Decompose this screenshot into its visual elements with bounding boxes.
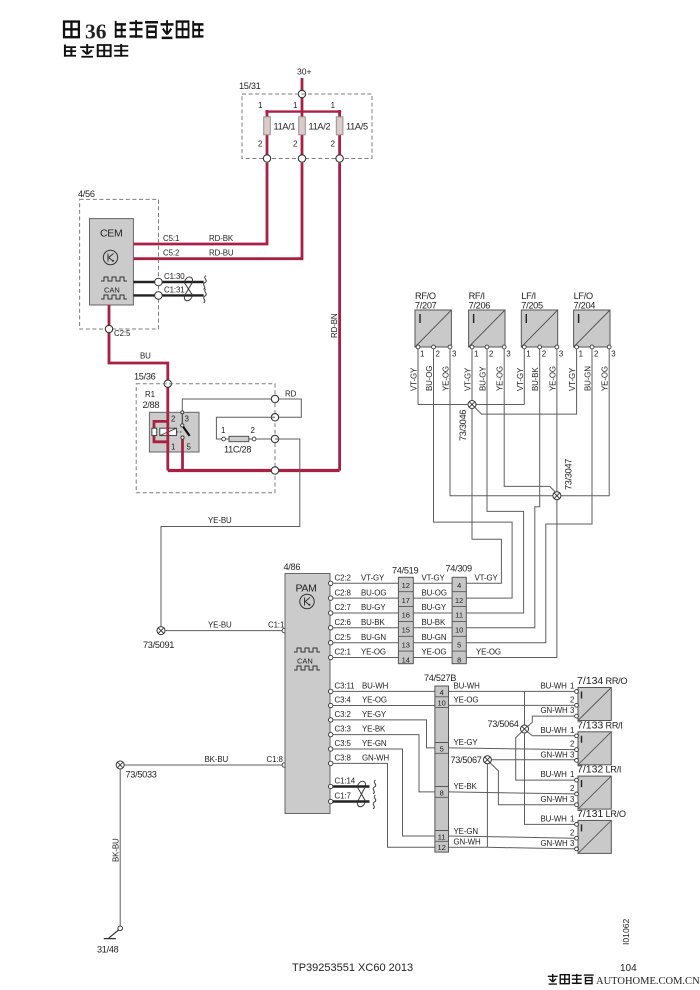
- svg-text:4/86: 4/86: [284, 562, 301, 572]
- wire BU-BK 74/309 up to sensor 7/205 pin2: [466, 347, 539, 628]
- splice 73/3046: [458, 401, 476, 442]
- svg-text:4: 4: [457, 581, 461, 590]
- wire CAN low C1:31: [133, 286, 203, 300]
- svg-text:RF/O: RF/O: [415, 291, 436, 301]
- wire BU-WH splice down to 7/132 pin1: [516, 732, 575, 780]
- svg-text:YE-OG: YE-OG: [548, 366, 557, 391]
- wire RD-BU fuse2 to CEM C5:2: [133, 163, 302, 259]
- svg-text:RR/O: RR/O: [606, 676, 628, 686]
- svg-text:AUTOHOME.COM.CN: AUTOHOME.COM.CN: [596, 976, 700, 987]
- svg-text:74/527B: 74/527B: [424, 673, 456, 683]
- wire YE-OG cell10 to 7/134 pin2: [449, 696, 575, 706]
- splice 73/5064: [488, 719, 529, 733]
- svg-text:2: 2: [171, 415, 175, 424]
- wire BU-OG 74/309 up to sensor 7/207 pin2: [434, 347, 513, 598]
- svg-text:VT-GY: VT-GY: [410, 367, 419, 391]
- svg-text:GN-WH: GN-WH: [454, 837, 482, 846]
- svg-text:11: 11: [455, 611, 463, 620]
- title line 1: 组 36 附加电子设备: [64, 20, 203, 44]
- svg-text:17: 17: [402, 596, 410, 605]
- svg-text:7/207: 7/207: [415, 301, 437, 311]
- svg-text:1: 1: [526, 350, 530, 359]
- svg-text:3: 3: [611, 350, 616, 359]
- CAN symbol CEM: [101, 277, 127, 281]
- relay R1 2/88: [143, 390, 200, 471]
- svg-text:C3:5: C3:5: [335, 739, 352, 748]
- svg-text:YE-OG: YE-OG: [362, 696, 387, 705]
- wire BU from CEM C2:5 to relay: [105, 305, 171, 412]
- svg-text:73/5091: 73/5091: [143, 640, 174, 650]
- svg-text:73/3046: 73/3046: [458, 410, 468, 441]
- svg-text:C1:30: C1:30: [164, 272, 185, 281]
- svg-text:5: 5: [440, 744, 444, 753]
- svg-text:2: 2: [542, 350, 546, 359]
- svg-text:4/56: 4/56: [78, 189, 95, 199]
- svg-text:YE-OG: YE-OG: [496, 366, 505, 391]
- svg-text:CEM: CEM: [100, 228, 122, 240]
- connector 74/519: [392, 566, 418, 665]
- svg-text:YE-BU: YE-BU: [208, 621, 232, 630]
- svg-text:3: 3: [185, 415, 190, 424]
- svg-text:YE-OG: YE-OG: [361, 648, 386, 657]
- svg-text:1: 1: [293, 101, 297, 110]
- svg-text:BU-WH: BU-WH: [541, 682, 568, 691]
- sensor LF/I 7/205: [516, 291, 564, 391]
- svg-text:YE-GY: YE-GY: [454, 738, 479, 747]
- svg-text:2: 2: [251, 426, 255, 435]
- svg-text:GN-WH: GN-WH: [541, 751, 569, 760]
- svg-text:2: 2: [570, 740, 574, 749]
- svg-text:GN-WH: GN-WH: [541, 706, 569, 715]
- wire YE-BK cell8 to 7/132 pin2: [449, 782, 575, 794]
- svg-text:5: 5: [187, 443, 192, 452]
- wire BK-BU down to ground: [112, 769, 121, 926]
- svg-text:BU-GN: BU-GN: [361, 633, 386, 642]
- wire BU-WH tap down to splice 73/5064: [524, 691, 526, 725]
- svg-text:73/5067: 73/5067: [451, 755, 482, 765]
- svg-text:VT-GY: VT-GY: [464, 367, 473, 391]
- svg-text:10: 10: [438, 699, 446, 708]
- wire CAN high C1:30: [133, 272, 203, 286]
- svg-text:YE-OG: YE-OG: [476, 648, 501, 657]
- svg-text:2: 2: [331, 140, 335, 149]
- svg-text:1: 1: [258, 101, 262, 110]
- svg-text:1: 1: [570, 815, 574, 824]
- svg-text:BU: BU: [140, 352, 151, 361]
- svg-text:VT-GY: VT-GY: [475, 574, 499, 583]
- svg-text:CAN: CAN: [297, 657, 313, 666]
- svg-text:74/309: 74/309: [446, 564, 472, 574]
- svg-text:BU-GY: BU-GY: [479, 366, 488, 391]
- svg-text:31/48: 31/48: [97, 945, 119, 955]
- svg-text:BU-GY: BU-GY: [422, 603, 447, 612]
- svg-text:BK-BU: BK-BU: [112, 838, 121, 862]
- svg-text:LF/O: LF/O: [574, 291, 593, 301]
- svg-text:C3:4: C3:4: [335, 696, 352, 705]
- svg-text:I01062: I01062: [621, 918, 631, 945]
- svg-text:VT-GY: VT-GY: [422, 574, 446, 583]
- svg-text:12: 12: [455, 596, 463, 605]
- wire YE-BU from node C down-left to splice 73/5091: [161, 439, 300, 626]
- wire BU-WH cell4 to 7/134 pin1: [449, 682, 575, 692]
- wire GN-WH splice to 7/132 pin3: [490, 763, 575, 805]
- control module PAM 4/86: [284, 562, 331, 814]
- svg-text:C1:1: C1:1: [268, 621, 284, 630]
- svg-text:GN-WH: GN-WH: [541, 795, 569, 804]
- svg-text:C3:3: C3:3: [335, 725, 352, 734]
- wire GN-WH cell12 to 7/131 pin3 with tap up to splice: [449, 764, 576, 849]
- svg-text:8: 8: [457, 655, 461, 664]
- svg-text:C2:8: C2:8: [335, 588, 352, 597]
- svg-text:BU-OG: BU-OG: [425, 366, 434, 391]
- svg-text:VT-GY: VT-GY: [361, 574, 385, 583]
- svg-text:2: 2: [436, 350, 440, 359]
- svg-text:PAM: PAM: [296, 583, 317, 595]
- wire YE-GY cell5 to 7/133 pin2: [449, 738, 575, 750]
- svg-text:LF/I: LF/I: [521, 291, 536, 301]
- svg-text:12: 12: [438, 843, 446, 852]
- svg-text:1: 1: [570, 770, 574, 779]
- svg-text:C5:1: C5:1: [163, 234, 179, 243]
- svg-text:C2:1: C2:1: [335, 648, 351, 657]
- svg-text:BK-BU: BK-BU: [205, 755, 229, 764]
- svg-text:YE-GN: YE-GN: [454, 827, 479, 836]
- svg-text:1: 1: [420, 350, 424, 359]
- wire fuse feed bus: [267, 110, 340, 112]
- wire BU-WH splice to 7/133 pin1: [527, 726, 574, 736]
- svg-text:YE-OG: YE-OG: [422, 648, 447, 657]
- svg-text:7/205: 7/205: [521, 301, 543, 311]
- svg-text:BU-WH: BU-WH: [541, 770, 568, 779]
- svg-text:RR/I: RR/I: [606, 720, 623, 730]
- svg-text:C5:2: C5:2: [163, 249, 179, 258]
- svg-text:2: 2: [594, 350, 598, 359]
- svg-text:104: 104: [620, 963, 637, 974]
- splice 73/5067: [451, 755, 492, 765]
- svg-text:30+: 30+: [297, 67, 312, 77]
- svg-text:C2:2: C2:2: [335, 574, 351, 583]
- wire YE-OG net front sensors: [450, 349, 609, 496]
- svg-text:2: 2: [570, 784, 574, 793]
- wire YE-BU splice to PAM C1:1: [165, 621, 286, 633]
- svg-text:3: 3: [452, 350, 457, 359]
- sensor RF/O 7/207: [410, 291, 458, 391]
- sensor 7/134 RR/O: [575, 675, 628, 721]
- svg-text:3: 3: [570, 795, 575, 804]
- wire RD node to fuse 11C/28: [216, 417, 275, 439]
- svg-text:C3:2: C3:2: [335, 710, 351, 719]
- svg-text:12: 12: [402, 581, 410, 590]
- sensor RF/I 7/206: [464, 291, 512, 391]
- svg-text:BU-WH: BU-WH: [541, 726, 568, 735]
- svg-text:73/3047: 73/3047: [564, 459, 574, 490]
- svg-text:1: 1: [331, 101, 335, 110]
- svg-text:7/206: 7/206: [469, 301, 491, 311]
- svg-text:2: 2: [489, 350, 493, 359]
- svg-text:15/36: 15/36: [134, 372, 156, 382]
- wire VT-GY 74/309 up to splice 73/3046: [466, 409, 501, 584]
- control module CEM 4/56: [78, 189, 159, 329]
- svg-text:YE-OG: YE-OG: [454, 696, 479, 705]
- svg-text:2/88: 2/88: [143, 400, 160, 410]
- svg-text:7/131: 7/131: [577, 808, 603, 820]
- svg-text:TP39253551 XC60 2013: TP39253551 XC60 2013: [292, 962, 413, 974]
- splice 73/5033: [116, 761, 157, 780]
- svg-text:YE-OG: YE-OG: [442, 366, 451, 391]
- svg-text:C1:14: C1:14: [335, 777, 356, 786]
- svg-text:2: 2: [570, 696, 574, 705]
- wire VT-GY bus front sensors: [418, 349, 524, 405]
- sensor LF/O 7/204: [568, 291, 616, 391]
- svg-text:CAN: CAN: [104, 286, 120, 295]
- wire relay bus (thick red): [168, 469, 340, 472]
- svg-text:73/5033: 73/5033: [126, 770, 157, 780]
- svg-text:BU-BK: BU-BK: [422, 618, 446, 627]
- wire VT-GY branch to 7/204 pin1: [475, 349, 577, 414]
- svg-text:11A/5: 11A/5: [346, 122, 368, 132]
- wire BU-WH splice to 7/131 pin1: [525, 733, 575, 824]
- node 30+: [297, 67, 312, 112]
- svg-text:BU-GY: BU-GY: [361, 603, 386, 612]
- svg-text:BU-WH: BU-WH: [454, 682, 481, 691]
- twisted pair symbol CEM: [184, 276, 206, 303]
- svg-text:16: 16: [402, 611, 410, 620]
- svg-text:1: 1: [579, 350, 583, 359]
- svg-text:BU-GN: BU-GN: [422, 633, 447, 642]
- svg-text:15/31: 15/31: [239, 81, 261, 91]
- svg-text:14: 14: [402, 655, 410, 664]
- svg-text:7/133: 7/133: [577, 719, 603, 731]
- svg-text:1: 1: [171, 443, 175, 452]
- svg-text:VT-GY: VT-GY: [516, 367, 525, 391]
- svg-text:BU-WH: BU-WH: [541, 815, 568, 824]
- splice 73/5091: [143, 627, 174, 650]
- wires 74/519 to 74/309: [413, 574, 452, 658]
- svg-text:10: 10: [455, 626, 463, 635]
- svg-text:BU-OG: BU-OG: [361, 588, 386, 597]
- fuse 11A/1: [258, 101, 296, 159]
- svg-text:1: 1: [474, 350, 478, 359]
- svg-text:15: 15: [402, 626, 410, 635]
- svg-text:11C/28: 11C/28: [224, 445, 251, 455]
- svg-text:4: 4: [440, 688, 444, 697]
- svg-text:C3:8: C3:8: [335, 754, 352, 763]
- svg-text:1: 1: [570, 682, 574, 691]
- svg-text:2: 2: [293, 140, 297, 149]
- watermark 汽车之家 AUTOHOME.COM.CN: [548, 974, 700, 987]
- svg-text:VT-GY: VT-GY: [568, 367, 577, 391]
- svg-text:RD-BN: RD-BN: [330, 313, 339, 338]
- svg-text:GN-WH: GN-WH: [362, 754, 390, 763]
- title line 2: 驻车辅助: [65, 44, 128, 57]
- wire relay pin3 to RD node: [182, 399, 275, 411]
- svg-text:GN-WH: GN-WH: [541, 839, 569, 848]
- wire BU-GN 74/309 up to sensor 7/204 pin2: [466, 347, 592, 643]
- fuse 11A/2: [293, 101, 331, 159]
- PAM C3 pin rows to 74/527B: [329, 682, 435, 848]
- svg-text:74/519: 74/519: [392, 566, 418, 576]
- svg-text:C2:5: C2:5: [335, 633, 352, 642]
- svg-text:YE-OG: YE-OG: [601, 366, 610, 391]
- svg-text:RD-BK: RD-BK: [209, 234, 234, 243]
- fuse box 15/31: [239, 81, 372, 159]
- svg-text:2: 2: [570, 828, 574, 837]
- svg-text:LR/I: LR/I: [606, 765, 622, 775]
- svg-text:7/132: 7/132: [577, 764, 603, 776]
- svg-text:RD-BU: RD-BU: [209, 249, 234, 258]
- svg-text:C1:8: C1:8: [267, 755, 284, 764]
- svg-text:36: 36: [85, 20, 107, 44]
- svg-text:1: 1: [570, 726, 574, 735]
- svg-text:C2:7: C2:7: [335, 603, 351, 612]
- svg-text:BU-OG: BU-OG: [422, 588, 447, 597]
- wire YE-GN cell11 to 7/131 pin2: [449, 827, 575, 838]
- svg-text:3: 3: [506, 350, 511, 359]
- wire YE-OG 74/309 up to splice 73/3047: [466, 500, 557, 658]
- svg-text:11: 11: [438, 832, 446, 841]
- svg-text:BU-BK: BU-BK: [531, 367, 540, 391]
- svg-text:1: 1: [221, 426, 225, 435]
- svg-text:3: 3: [570, 706, 575, 715]
- wire 30+ feed: [301, 78, 304, 112]
- svg-text:YE-GN: YE-GN: [362, 739, 387, 748]
- svg-text:13: 13: [402, 640, 410, 649]
- fuse 11A/5: [331, 101, 368, 159]
- wire fuse 11C/28 to node C: [256, 438, 275, 440]
- svg-text:11A/1: 11A/1: [274, 122, 296, 132]
- svg-text:RD: RD: [285, 390, 297, 399]
- PAM C2 pin rows to 74/519: [329, 574, 399, 660]
- wire GN-WH splice 73/5067 to 7/133 pin3: [491, 751, 575, 761]
- relay switch pin3/pin5: [181, 411, 184, 414]
- svg-text:5: 5: [457, 640, 461, 649]
- svg-text:YE-GY: YE-GY: [362, 710, 387, 719]
- svg-text:3: 3: [570, 839, 575, 848]
- svg-text:RF/I: RF/I: [469, 291, 485, 301]
- sensor 7/131 LR/O: [575, 808, 626, 854]
- svg-text:8: 8: [440, 788, 444, 797]
- relay box 15/36: [134, 372, 275, 493]
- svg-text:2: 2: [258, 140, 262, 149]
- svg-text:C1:31: C1:31: [164, 286, 185, 295]
- svg-text:YE-BK: YE-BK: [454, 782, 478, 791]
- wire CAN pair PAM C1:14 / C1:7: [329, 777, 376, 809]
- sensor 7/132 LR/I: [575, 764, 622, 810]
- node fuse box exits: [263, 155, 270, 162]
- svg-text:C2:5: C2:5: [114, 329, 131, 338]
- relay coil loop: [160, 428, 177, 435]
- svg-text:YE-BK: YE-BK: [362, 725, 386, 734]
- connector 74/527B: [424, 673, 456, 852]
- svg-text:BU-WH: BU-WH: [362, 682, 389, 691]
- svg-text:11A/2: 11A/2: [309, 122, 331, 132]
- svg-text:YE-BU: YE-BU: [208, 516, 232, 525]
- sensor 7/133 RR/I: [575, 719, 623, 765]
- splice 73/3047: [553, 459, 574, 500]
- wire RD-BN fuse3 down to relay: [330, 163, 340, 471]
- svg-text:LR/O: LR/O: [606, 809, 626, 819]
- wire GN-WH to 7/134 pin3: [528, 706, 575, 726]
- svg-text:C1:7: C1:7: [335, 792, 351, 801]
- svg-text:C2:6: C2:6: [335, 618, 352, 627]
- wire BK-BU splice to PAM C1:8: [124, 755, 286, 767]
- svg-text:7/204: 7/204: [574, 301, 596, 311]
- wire BU-GY 74/309 up to sensor 7/206 pin2: [466, 347, 523, 613]
- svg-text:C3:11: C3:11: [335, 682, 355, 691]
- wire RD loop outside box: [275, 399, 301, 417]
- ground 31/48: [97, 926, 122, 955]
- svg-text:BU-GN: BU-GN: [584, 366, 593, 391]
- svg-text:3: 3: [570, 751, 575, 760]
- svg-text:R1: R1: [145, 390, 155, 399]
- svg-text:7/134: 7/134: [577, 675, 603, 687]
- svg-text:73/5064: 73/5064: [488, 719, 519, 729]
- fuse 11C/28: [221, 426, 256, 455]
- svg-text:3: 3: [559, 350, 564, 359]
- svg-text:BU-BK: BU-BK: [361, 618, 385, 627]
- wire RD-BK fuse1 to CEM C5:1: [133, 163, 267, 244]
- connector 74/309: [446, 564, 472, 665]
- CAN symbol PAM: [294, 648, 320, 652]
